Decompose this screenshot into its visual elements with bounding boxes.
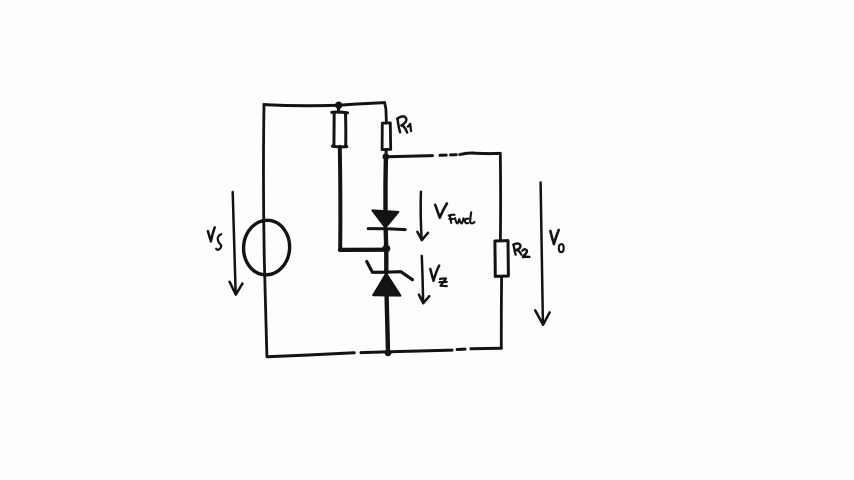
wire thick horizontal to diode node	[340, 248, 386, 252]
voltage source VS circle	[242, 219, 292, 277]
label VS	[208, 227, 221, 249]
resistor R2 body	[495, 241, 509, 277]
node A junction dot top	[335, 102, 342, 109]
label VZ	[430, 266, 447, 287]
resistor R1 body	[382, 123, 391, 150]
wire R1 bottom stub	[384, 150, 387, 157]
node B junction dot below R1	[383, 153, 390, 160]
arrow VS	[230, 192, 243, 295]
wire top right dash 2	[451, 153, 457, 156]
diode D1 forward triangle	[372, 210, 398, 227]
label V0	[550, 230, 563, 252]
label R2	[513, 243, 529, 257]
zener DZ anode triangle	[373, 274, 400, 296]
node bottom junction dot	[385, 349, 392, 356]
wire bottom dash	[457, 348, 465, 351]
wire right vertical lower	[500, 276, 503, 348]
wire top right to corner	[460, 153, 500, 155]
wire top right solid segment	[388, 156, 433, 157]
arrow V0	[535, 183, 549, 325]
resistor unnamed top stub	[337, 105, 340, 112]
arrow VFwd	[417, 192, 428, 240]
wire bottom right segment	[471, 347, 501, 351]
wire bottom mid segment	[361, 350, 452, 353]
wire between diodes lower	[384, 249, 388, 273]
wire left vertical from top-left corner down through source	[263, 104, 266, 356]
label VFwd	[435, 204, 474, 224]
label R1	[397, 116, 411, 132]
wire bottom left segment	[267, 353, 354, 357]
wire top horizontal from source to R1 branch	[264, 103, 385, 106]
wire below zener to bottom node	[387, 296, 388, 353]
wire between diodes upper	[384, 230, 389, 249]
wire diode branch upper	[383, 157, 388, 210]
wire top right dash 1	[440, 154, 446, 157]
node C junction dot between diodes	[382, 245, 390, 253]
wire thick leg below unnamed resistor	[338, 147, 343, 250]
wire R1 top lead	[385, 103, 387, 123]
diode D1 cathode bar	[368, 229, 405, 230]
zener DZ cathode bar with bent tails	[367, 262, 413, 280]
resistor unnamed body	[332, 111, 348, 115]
wire right vertical upper	[499, 154, 502, 241]
arrow VZ	[419, 256, 429, 303]
